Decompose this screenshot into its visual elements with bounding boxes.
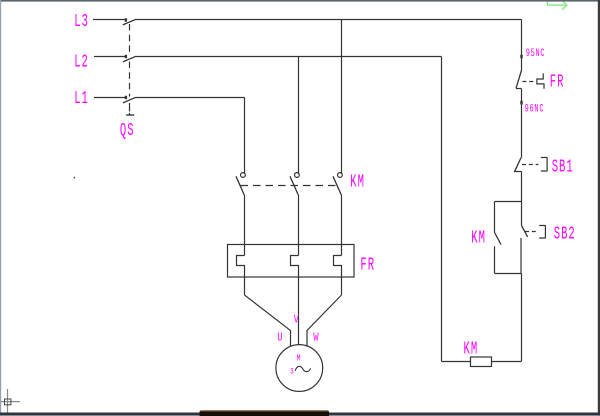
KM auxiliary contact blade — [495, 233, 501, 245]
wire between FR contact and SB1 — [521, 89, 523, 158]
svg-text:KM: KM — [464, 340, 479, 360]
wire KM aux branch bottom horizontal — [495, 273, 522, 275]
QS handle — [126, 114, 134, 116]
svg-text:L3: L3 — [74, 12, 89, 32]
wire coil right horizontal — [492, 361, 522, 363]
svg-text:M: M — [297, 354, 301, 364]
svg-text:V: V — [294, 314, 300, 327]
contactor KM main contact pole1 fixed terminal circle — [241, 173, 246, 178]
wire below SB1 to node — [521, 172, 523, 202]
wire phase1 from L1 down to KM contact — [244, 98, 246, 175]
KM main contacts linkage dashed line — [241, 185, 338, 187]
svg-text:KM: KM — [471, 229, 486, 249]
wire L3 rail right to control branch — [136, 19, 522, 21]
svg-text:SB2: SB2 — [554, 225, 576, 245]
QS pole L1 terminal tick — [125, 96, 127, 99]
SB2 dashed actuator link — [525, 231, 538, 233]
wire KM aux branch left vertical lower — [494, 246, 496, 273]
SB1 push button cap — [541, 158, 548, 172]
SB2 push button cap — [539, 226, 546, 239]
motor M circle — [276, 345, 323, 392]
svg-text:96NC: 96NC — [525, 103, 545, 115]
window frame left — [0, 0, 1, 416]
svg-text:QS: QS — [120, 121, 135, 141]
motor tilde wave — [295, 366, 311, 371]
stray point dot — [74, 177, 76, 179]
svg-text:95NC: 95NC — [526, 48, 546, 60]
disconnect switch QS pole L1 blade — [123, 97, 136, 103]
svg-text:KM: KM — [350, 173, 365, 193]
FR NC contact terminal 96 tick — [520, 101, 522, 105]
window frame right — [598, 0, 600, 416]
FR NC contact stop bar — [516, 88, 522, 90]
thermal overload FR box — [228, 245, 355, 278]
QS pole L2 terminal tick — [125, 55, 127, 58]
contactor KM main contact pole2 fixed terminal circle — [295, 173, 300, 178]
wire motor lead V straight — [298, 277, 300, 345]
svg-text:3: 3 — [290, 368, 294, 377]
wire motor lead U diagonal — [245, 295, 291, 347]
svg-text:L2: L2 — [74, 53, 89, 73]
FR heater element phase1 — [237, 256, 245, 296]
wire phase2 from L2 down to KM contact — [298, 57, 300, 175]
wire control return up to L2 — [441, 57, 443, 362]
wire L3 rail left — [93, 19, 126, 21]
wire KM aux branch left vertical upper — [494, 202, 496, 233]
contactor KM main contact pole1 blade — [236, 176, 244, 195]
SB1 dashed actuator link — [522, 164, 539, 166]
FR contact dashed actuator link — [522, 81, 535, 83]
wire L1 rail right — [136, 97, 245, 99]
FR NC contact terminal 95 tick — [520, 55, 522, 58]
svg-text:U: U — [277, 332, 282, 345]
disconnect switch QS pole L2 blade — [123, 56, 136, 62]
window frame bottom — [0, 413, 600, 416]
wire node branch horizontal top of KM aux — [495, 201, 522, 203]
green layout arrow marker — [548, 1, 567, 10]
FR thermal actuator zigzag symbol — [537, 73, 544, 88]
FR heater element phase3 — [334, 256, 342, 296]
wire L2 rail right to control branch — [136, 56, 442, 58]
contactor KM main contact pole3 blade — [333, 176, 341, 195]
wire L2 rail left — [94, 56, 126, 58]
wire from parallel section down to coil — [521, 274, 523, 362]
svg-text:FR: FR — [550, 73, 565, 93]
svg-text:SB1: SB1 — [552, 158, 574, 178]
status bar brown segment — [200, 410, 330, 416]
disconnect switch QS pole L3 blade — [123, 19, 136, 25]
svg-text:L1: L1 — [74, 90, 89, 110]
wire pole2 below contact — [298, 195, 300, 256]
FR NC contact blade — [516, 70, 522, 88]
crosshair cursor — [0, 389, 20, 414]
wire phase3 from L3 down to KM contact — [341, 20, 343, 175]
wire L1 rail left — [94, 97, 126, 99]
SB1 stop bar — [514, 171, 521, 173]
svg-text:W: W — [313, 332, 319, 345]
start button SB2 upper wire — [521, 202, 523, 226]
QS linkage dashed line — [129, 24, 131, 53]
stop button SB1 NC blade — [514, 158, 521, 173]
wire pole1 below contact — [244, 195, 246, 256]
wire below SB2 — [520, 238, 522, 274]
QS pole L3 terminal tick — [125, 18, 127, 21]
contactor KM main contact pole3 fixed terminal circle — [338, 173, 343, 178]
contactor KM main contact pole2 blade — [290, 176, 298, 195]
FR heater element phase2 — [291, 256, 299, 278]
wire coil left horizontal — [442, 361, 471, 363]
wire motor lead W diagonal — [307, 295, 342, 347]
SB2 NO contact blade — [521, 225, 527, 237]
contactor coil KM rectangle — [471, 357, 492, 367]
svg-text:FR: FR — [360, 256, 375, 276]
wire pole3 below contact — [341, 195, 343, 256]
wire control branch from L3 down — [521, 20, 523, 71]
crosshair pickbox — [5, 399, 11, 405]
window frame top — [0, 0, 600, 2]
